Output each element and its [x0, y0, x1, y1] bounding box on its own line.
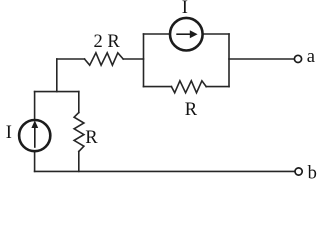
current source I (top), circle — [170, 18, 203, 51]
wire: box bottom branch left segment — [144, 86, 172, 88]
resistor 2R zigzag — [85, 53, 124, 65]
terminal a node circle — [294, 55, 301, 62]
wire: 2R to box left edge — [123, 58, 143, 60]
wire: resistor R bottom lead — [78, 152, 80, 172]
wire: box top branch right segment — [203, 33, 229, 35]
svg-text:a: a — [307, 47, 315, 67]
current source I (left), circle — [19, 120, 50, 151]
wire: box left edge vertical — [143, 34, 145, 87]
wire: box bottom branch right segment — [206, 86, 229, 88]
svg-text:R: R — [85, 128, 98, 148]
wire: loop top horizontal — [35, 91, 79, 93]
current source I (left), arrow — [31, 120, 38, 147]
svg-text:2 R: 2 R — [94, 32, 121, 52]
svg-text:I: I — [6, 123, 12, 143]
resistor R (in box) zigzag — [171, 81, 206, 93]
wire: box output to terminal a — [229, 58, 294, 60]
current source I (top), arrow — [176, 30, 197, 38]
wire: box top branch left segment — [144, 33, 170, 35]
wire: left source top lead — [34, 92, 36, 120]
wire: box right edge vertical — [228, 34, 230, 87]
wire: 2R branch left horizontal — [57, 58, 85, 60]
wire: left source bottom lead — [34, 152, 36, 172]
resistor R (vertical) zigzag — [74, 113, 84, 152]
svg-text:b: b — [308, 163, 317, 183]
svg-text:R: R — [185, 100, 198, 120]
wire: bottom rail to terminal b — [35, 170, 295, 172]
wire: junction vertical from 2R node down to loop top — [56, 59, 58, 92]
terminal b node circle — [295, 168, 302, 175]
svg-text:I: I — [182, 0, 188, 18]
wire: resistor R top lead — [78, 92, 80, 113]
